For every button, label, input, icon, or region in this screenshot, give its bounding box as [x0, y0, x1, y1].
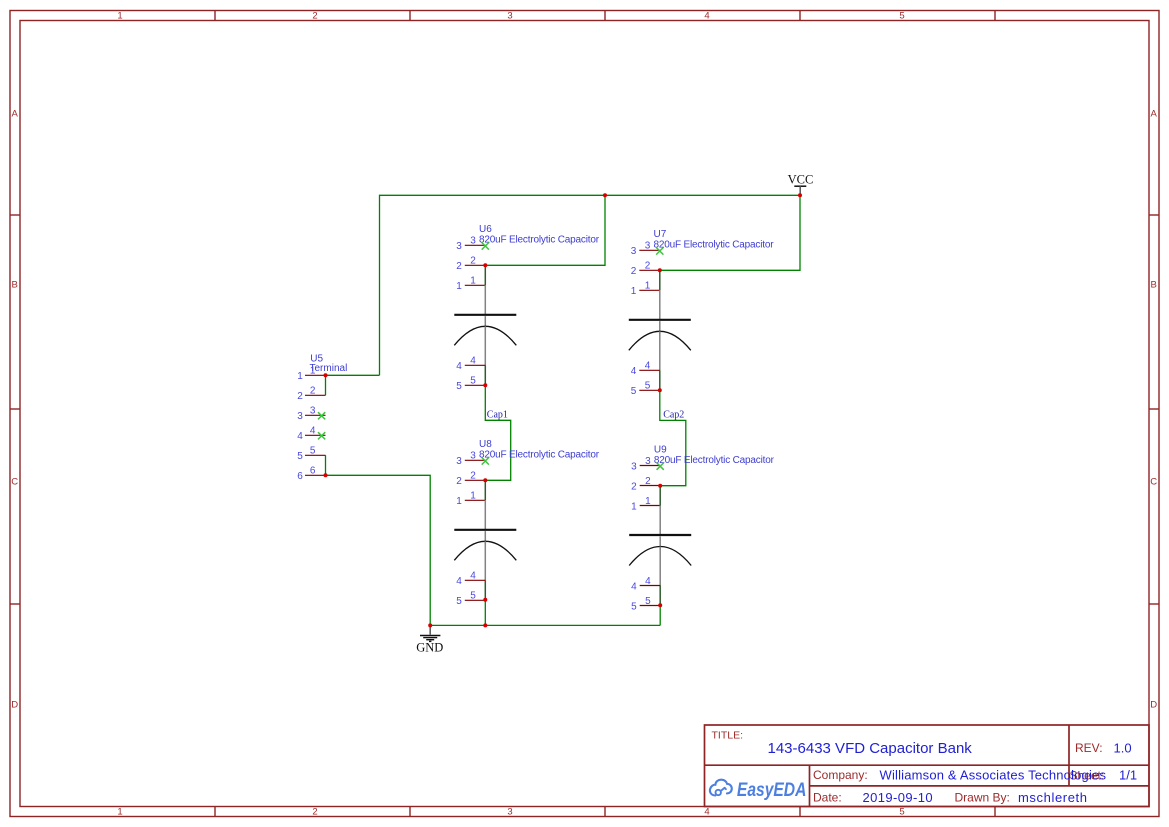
U8 pin 5	[456, 591, 485, 607]
U8 body	[454, 480, 516, 600]
wire VCC top rail from U5 pin1 riser to VCC node	[380, 195, 801, 375]
svg-text:Company:: Company:	[813, 768, 868, 782]
wire U8 pin5 drop to bottom rail	[484, 600, 486, 626]
svg-text:2: 2	[645, 476, 651, 487]
svg-text:820uF Electrolytic Capacitor: 820uF Electrolytic Capacitor	[479, 450, 600, 461]
ground symbol GND	[416, 625, 443, 654]
svg-text:3: 3	[645, 456, 651, 467]
wire U5 pin1 to riser	[326, 374, 380, 376]
svg-text:4: 4	[704, 807, 709, 818]
U9 pin 4	[631, 576, 660, 592]
U8 pin 3 (no connect)	[456, 451, 489, 467]
U9 value label 820uF Electrolytic Capacitor	[654, 455, 775, 466]
U5 pin 2	[297, 386, 325, 402]
svg-text:5: 5	[310, 446, 316, 457]
svg-text:820uF Electrolytic Capacitor: 820uF Electrolytic Capacitor	[654, 455, 775, 466]
power symbol VCC	[788, 172, 814, 195]
svg-text:5: 5	[899, 807, 904, 818]
U9 body	[629, 486, 691, 606]
U9 pin 3 (no connect)	[631, 456, 664, 472]
svg-text:3: 3	[470, 451, 476, 462]
U6 reference label	[479, 224, 492, 235]
wire GND bottom rail	[430, 624, 660, 626]
svg-text:5: 5	[456, 596, 462, 607]
svg-text:4: 4	[310, 426, 316, 437]
svg-text:2: 2	[470, 256, 476, 267]
svg-text:5: 5	[470, 376, 476, 387]
svg-text:TITLE:: TITLE:	[712, 730, 744, 742]
U7 pin 2	[631, 261, 660, 277]
wire U5 pin1-pin2 bridge	[325, 375, 327, 395]
U8 pin 4	[456, 571, 485, 587]
U7 pin 5	[631, 381, 660, 397]
node top rail junction	[603, 193, 607, 197]
svg-text:4: 4	[645, 576, 651, 587]
svg-text:5: 5	[631, 386, 637, 397]
svg-text:3: 3	[310, 406, 316, 417]
svg-text:A: A	[12, 108, 19, 119]
svg-text:4: 4	[456, 361, 462, 372]
svg-text:1: 1	[631, 286, 637, 297]
svg-text:1: 1	[631, 501, 637, 512]
U7 pin 3 (no connect)	[631, 241, 664, 257]
capacitor U6	[454, 224, 599, 392]
svg-text:2: 2	[631, 266, 637, 277]
net label Cap2	[663, 410, 684, 421]
U7 value label 820uF Electrolytic Capacitor	[654, 240, 775, 251]
U5 pin 6	[297, 466, 325, 482]
wire VCC down to U7 pin2	[660, 195, 800, 270]
U6 body	[454, 265, 516, 385]
wire net Cap1: U6 pin5 to U8 pin2	[485, 385, 510, 480]
U6 value label 820uF Electrolytic Capacitor	[479, 235, 600, 246]
node U7 pin2	[658, 268, 662, 272]
svg-text:5: 5	[297, 451, 303, 462]
svg-text:1: 1	[645, 281, 651, 292]
svg-text:A: A	[1151, 108, 1158, 119]
svg-text:3: 3	[631, 461, 637, 472]
node U5 pin6	[324, 473, 328, 477]
svg-text:5: 5	[899, 11, 904, 22]
U5 pin 3 (no connect)	[297, 406, 325, 422]
U9 pin 1	[631, 496, 660, 512]
svg-text:2: 2	[631, 481, 637, 492]
wire U5 pin5-pin6 bridge	[325, 455, 327, 475]
wire U6 pin2 to top rail	[485, 195, 605, 265]
svg-text:2: 2	[645, 261, 651, 272]
svg-text:3: 3	[631, 246, 637, 257]
wire U9 pin5 drop to bottom rail	[659, 605, 661, 625]
capacitor U8	[454, 439, 599, 607]
U6 pin 2	[456, 256, 485, 272]
svg-text:5: 5	[470, 591, 476, 602]
svg-text:1: 1	[310, 366, 316, 377]
svg-text:4: 4	[704, 11, 709, 22]
svg-text:820uF Electrolytic Capacitor: 820uF Electrolytic Capacitor	[479, 235, 600, 246]
svg-text:1: 1	[470, 276, 476, 287]
U7 pin 4	[631, 361, 660, 377]
svg-text:VCC: VCC	[788, 172, 814, 186]
capacitor U7	[629, 229, 774, 397]
svg-text:5: 5	[645, 596, 651, 607]
node U5 pin1	[324, 373, 328, 377]
svg-text:2: 2	[312, 11, 317, 22]
U6 pin 5	[456, 376, 485, 392]
node GND	[428, 623, 432, 627]
svg-text:Drawn By:: Drawn By:	[955, 791, 1010, 805]
node VCC	[798, 193, 802, 197]
svg-text:U7: U7	[654, 229, 667, 240]
wire net Cap2: U7 pin5 to U9 pin2	[660, 390, 686, 485]
U8 reference label	[479, 439, 492, 450]
svg-text:4: 4	[456, 576, 462, 587]
svg-text:5: 5	[631, 601, 637, 612]
U5 pin 5	[297, 446, 325, 462]
svg-text:4: 4	[470, 571, 476, 582]
node U9 pin5	[658, 603, 662, 607]
svg-text:Date:: Date:	[813, 791, 842, 805]
svg-text:5: 5	[456, 381, 462, 392]
U7 reference label	[654, 229, 667, 240]
U5 reference label	[310, 353, 323, 364]
svg-text:U9: U9	[654, 444, 667, 455]
svg-text:2: 2	[456, 476, 462, 487]
svg-text:2019-09-10: 2019-09-10	[863, 790, 934, 805]
node U9 pin2	[658, 484, 662, 488]
node U8 pin2	[483, 478, 487, 482]
U5 pin 4 (no connect)	[297, 426, 325, 442]
U6 pin 3 (no connect)	[456, 236, 489, 252]
node bottom rail junction	[483, 623, 487, 627]
svg-text:Williamson & Associates Techno: Williamson & Associates Technologies	[880, 767, 1107, 782]
U8 pin 1	[456, 491, 485, 507]
U8 value label 820uF Electrolytic Capacitor	[479, 450, 600, 461]
net label Cap1	[487, 410, 508, 421]
svg-text:C: C	[11, 476, 18, 487]
svg-text:1: 1	[470, 491, 476, 502]
node U8 pin5	[483, 598, 487, 602]
svg-text:820uF Electrolytic Capacitor: 820uF Electrolytic Capacitor	[654, 240, 775, 251]
svg-text:3: 3	[456, 456, 462, 467]
svg-text:1: 1	[297, 371, 303, 382]
terminal U5	[297, 353, 347, 482]
svg-text:2: 2	[297, 391, 303, 402]
svg-text:4: 4	[645, 361, 651, 372]
U5 pin 1	[297, 366, 325, 382]
svg-text:1: 1	[117, 807, 122, 818]
svg-text:GND: GND	[416, 640, 443, 654]
U9 pin 2	[631, 476, 660, 492]
svg-text:2: 2	[310, 386, 316, 397]
svg-text:1/1: 1/1	[1119, 768, 1137, 783]
svg-text:4: 4	[631, 366, 637, 377]
svg-text:REV:: REV:	[1075, 741, 1103, 755]
svg-text:4: 4	[470, 356, 476, 367]
svg-text:4: 4	[631, 581, 637, 592]
U5 value label Terminal	[310, 363, 348, 374]
wire U5 pin6 to GND node	[326, 475, 431, 625]
U9 reference label	[654, 444, 667, 455]
svg-text:1: 1	[456, 281, 462, 292]
svg-text:6: 6	[310, 466, 316, 477]
svg-text:U6: U6	[479, 224, 492, 235]
svg-text:1: 1	[456, 496, 462, 507]
svg-text:1: 1	[117, 11, 122, 22]
svg-text:1: 1	[645, 496, 651, 507]
svg-text:3: 3	[645, 241, 651, 252]
U7 body	[629, 270, 691, 390]
svg-text:D: D	[1150, 699, 1157, 710]
U6 pin 4	[456, 356, 485, 372]
svg-text:EasyEDA: EasyEDA	[737, 780, 807, 801]
svg-text:3: 3	[456, 241, 462, 252]
svg-text:mschlereth: mschlereth	[1018, 790, 1088, 805]
node U7 pin5	[658, 388, 662, 392]
svg-text:2: 2	[312, 807, 317, 818]
svg-text:3: 3	[507, 11, 512, 22]
svg-text:Cap2: Cap2	[663, 410, 684, 421]
svg-text:4: 4	[297, 431, 303, 442]
svg-text:B: B	[12, 279, 18, 290]
svg-text:2: 2	[470, 471, 476, 482]
U9 pin 5	[631, 596, 660, 612]
svg-text:1.0: 1.0	[1114, 741, 1132, 756]
svg-text:6: 6	[297, 471, 303, 482]
svg-text:5: 5	[645, 381, 651, 392]
svg-text:3: 3	[470, 236, 476, 247]
svg-text:3: 3	[507, 807, 512, 818]
U6 pin 1	[456, 276, 485, 292]
node U6 pin2	[483, 263, 487, 267]
svg-text:D: D	[11, 699, 18, 710]
svg-text:143-6433 VFD Capacitor Bank: 143-6433 VFD Capacitor Bank	[768, 740, 973, 757]
U8 pin 2	[456, 471, 485, 487]
svg-text:B: B	[1151, 279, 1157, 290]
svg-text:Cap1: Cap1	[487, 410, 508, 421]
svg-text:U8: U8	[479, 439, 492, 450]
svg-text:3: 3	[297, 411, 303, 422]
svg-text:C: C	[1150, 476, 1157, 487]
svg-text:2: 2	[456, 261, 462, 272]
node U6 pin5	[483, 383, 487, 387]
U7 pin 1	[631, 281, 660, 297]
capacitor U9	[629, 444, 774, 612]
